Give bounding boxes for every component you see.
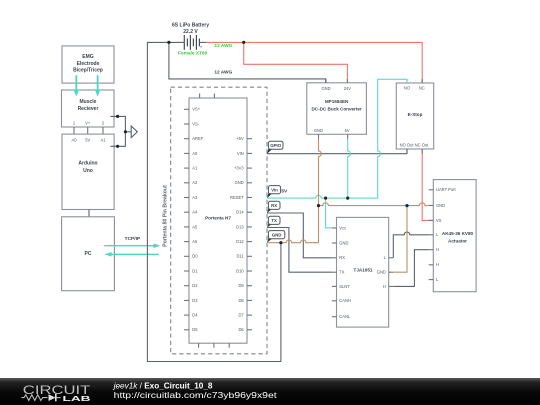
node 5V net at Vcc branch	[324, 197, 327, 200]
block AK45-36 KV80 Actuator	[429, 180, 476, 292]
svg-text:RX: RX	[271, 203, 277, 208]
wire battery negative branch 12AWG to buck GND	[169, 42, 326, 83]
svg-text:Electrode: Electrode	[77, 61, 100, 67]
block E-Stop	[396, 79, 433, 154]
svg-text:D9: D9	[238, 283, 244, 288]
svg-text:UART Port: UART Port	[436, 187, 457, 192]
svg-text:Vcc: Vcc	[339, 225, 346, 230]
wire RX flag to TJA RX	[267, 213, 332, 258]
svg-text:PC: PC	[85, 251, 92, 257]
signal arrow Portenta to PC (TCP/IP left)	[105, 252, 159, 257]
svg-text:24V: 24V	[344, 86, 352, 91]
net flag RX	[267, 201, 280, 213]
logo CIRCUIT LAB	[22, 383, 92, 403]
svg-text:DC-DC Buck Converter: DC-DC Buck Converter	[311, 107, 361, 112]
svg-text:GND: GND	[272, 232, 282, 237]
svg-text:MP1584EN: MP1584EN	[325, 99, 349, 104]
wire battery negative to ground rail	[147, 42, 281, 361]
wire GND net branch down to TJA GND	[393, 206, 407, 273]
svg-text:E-Stop: E-Stop	[408, 112, 423, 117]
wire TJA H to actuator H	[393, 250, 428, 287]
svg-text:A6: A6	[192, 239, 198, 244]
wire GND net horizontal to actuator GND with hops over cyan and red	[319, 203, 429, 206]
svg-text:TCP/IP: TCP/IP	[125, 236, 141, 242]
wire TJA L to actuator L with hop over brown	[393, 232, 428, 258]
block Arduino Uno	[62, 134, 114, 209]
node battery negative junction	[167, 41, 170, 44]
svg-text:LAB: LAB	[63, 394, 91, 403]
wire GND flag to brown vertical with hops over TX and RX wires	[267, 206, 319, 243]
svg-text:Vin: Vin	[271, 187, 278, 192]
signal arrow EMG to Muscle (left)	[73, 75, 79, 96]
node 5V net at buck 5V	[346, 197, 349, 200]
block Muscle Reciever	[62, 90, 115, 127]
svg-text:VIN: VIN	[237, 151, 244, 156]
svg-text:GND: GND	[339, 240, 348, 245]
svg-text:Portenta H7: Portenta H7	[205, 215, 231, 220]
signal arrow EMG to Muscle (right)	[95, 75, 101, 96]
svg-text:12 AWG: 12 AWG	[214, 43, 232, 49]
svg-text:D1: D1	[192, 268, 198, 273]
svg-text:6S LiPo Battery: 6S LiPo Battery	[172, 22, 209, 28]
svg-text:CANL: CANL	[339, 314, 351, 319]
node GND net junction	[317, 204, 320, 207]
svg-text:H: H	[436, 247, 439, 252]
wire battery positive to E-Stop NC (red)	[207, 42, 423, 83]
net flag Vin	[267, 186, 281, 199]
svg-text:5V: 5V	[85, 137, 90, 142]
svg-text:D14: D14	[236, 210, 244, 215]
svg-text:D12: D12	[236, 239, 244, 244]
svg-text:TJA1051: TJA1051	[354, 268, 373, 273]
svg-text:GND: GND	[235, 180, 244, 185]
node muscle pin right	[116, 115, 119, 118]
svg-text:V+: V+	[85, 121, 91, 126]
svg-text:GND: GND	[314, 128, 323, 133]
svg-text:+: +	[200, 46, 203, 51]
svg-text:Arduino: Arduino	[78, 161, 97, 167]
svg-text:A1: A1	[192, 166, 198, 171]
svg-text:D3: D3	[192, 298, 198, 303]
svg-text:GPIO: GPIO	[270, 143, 282, 148]
wire 5V net: branch down to TJA Vcc	[326, 198, 332, 228]
svg-text:D6: D6	[238, 327, 244, 332]
svg-text:VS-: VS-	[192, 121, 199, 126]
svg-text:D10: D10	[236, 268, 244, 273]
svg-text:Female XT60: Female XT60	[178, 51, 208, 57]
wire 24V branch to buck converter (red)	[244, 42, 348, 83]
svg-text:jeev1k / Exo_Circuit_10_8: jeev1k / Exo_Circuit_10_8	[113, 381, 213, 390]
svg-text:A4: A4	[192, 210, 198, 215]
net flag GND	[267, 231, 285, 243]
svg-text:A3: A3	[192, 195, 198, 200]
node battery positive junction	[242, 41, 245, 44]
svg-text:NC: NC	[419, 85, 425, 90]
signal arrow PC to Portenta (TCP/IP right)	[104, 243, 160, 248]
svg-text:D8: D8	[238, 298, 244, 303]
svg-text:SLNT: SLNT	[339, 284, 350, 289]
node buffer input	[124, 130, 127, 133]
svg-text:GND: GND	[377, 270, 386, 275]
svg-text:D4: D4	[192, 313, 198, 318]
chip Portenta H7	[189, 98, 247, 343]
svg-text:Bicep/Tricep: Bicep/Tricep	[73, 68, 103, 74]
net flag GPIO	[267, 141, 283, 154]
svg-text:+3V3: +3V3	[234, 166, 244, 171]
svg-text:A2: A2	[192, 180, 198, 185]
wire TX flag to TJA TX	[267, 228, 332, 273]
block EMG Electrode Bicep/Tricep	[62, 46, 114, 83]
buffer amplifier symbol	[131, 126, 137, 138]
svg-text:NC Out: NC Out	[415, 143, 430, 148]
svg-text:5V: 5V	[345, 128, 350, 133]
block PC	[62, 217, 115, 291]
svg-text:D13: D13	[236, 224, 244, 229]
svg-text:RESET: RESET	[230, 195, 244, 200]
svg-text:GND: GND	[321, 86, 330, 91]
module box Portenta 80 Pin Breakout (dashed)	[163, 87, 267, 354]
svg-text:D0: D0	[192, 254, 198, 259]
battery V1 6S LiPo	[172, 22, 209, 56]
svg-text:A0: A0	[192, 151, 198, 156]
svg-text:NO Out: NO Out	[400, 143, 415, 148]
svg-text:Uno: Uno	[83, 168, 93, 174]
svg-text:Actuator: Actuator	[448, 239, 467, 244]
svg-text:D7: D7	[238, 313, 244, 318]
svg-text:D2: D2	[192, 283, 198, 288]
wire GND net: buck GND down with hop over GPIO wire	[319, 139, 322, 206]
node arduino pin right	[116, 145, 119, 148]
svg-text:22.2 V: 22.2 V	[183, 29, 198, 35]
node GND net at TJA branch	[405, 204, 408, 207]
svg-text:VS: VS	[436, 218, 442, 223]
svg-text:D5: D5	[192, 327, 198, 332]
svg-text:5V: 5V	[281, 189, 288, 195]
chip Portenta H7 pins	[184, 94, 252, 348]
svg-text:Portenta 80 Pin Breakout: Portenta 80 Pin Breakout	[163, 185, 169, 247]
block MP1584EN DC-DC Buck Converter	[307, 79, 367, 139]
wire E-Stop NC Out to actuator VS (red)	[422, 149, 433, 220]
svg-text:A0: A0	[71, 137, 77, 142]
svg-text:CANH: CANH	[339, 298, 351, 303]
svg-text:Muscle: Muscle	[80, 99, 97, 105]
wire GPIO to E-Stop NO Out	[267, 149, 407, 154]
svg-text:EMG: EMG	[82, 54, 94, 60]
svg-text:TX: TX	[339, 270, 345, 275]
svg-text:Reciever: Reciever	[78, 106, 99, 112]
svg-text:+5V: +5V	[236, 136, 244, 141]
svg-text:VS+: VS+	[192, 107, 200, 112]
svg-text:GND: GND	[436, 203, 445, 208]
svg-text:TX: TX	[271, 218, 277, 223]
net flag TX	[267, 216, 280, 227]
node GND flag to ground rail	[279, 241, 282, 244]
svg-text:A5: A5	[192, 224, 198, 229]
svg-text:H: H	[383, 284, 386, 289]
svg-text:12 AWG: 12 AWG	[214, 70, 232, 76]
wire Muscle pin1/pin2 to buffer	[110, 116, 131, 146]
svg-text:NO: NO	[404, 85, 410, 90]
svg-text:AREF: AREF	[192, 136, 203, 141]
block TJA1051 CAN transceiver	[332, 217, 393, 327]
pin stubs Muscle to Arduino	[74, 127, 103, 134]
wire 5V net: Vin flag to E-Stop NO with hops	[267, 79, 407, 198]
svg-text:A1: A1	[100, 137, 106, 142]
wire battery positive stub	[199, 41, 206, 43]
svg-text:D11: D11	[236, 254, 244, 259]
wire 5V net: buck 5V down with hop over GPIO wire	[348, 139, 351, 198]
svg-text:http://circuitlab.com/c73yb96y: http://circuitlab.com/c73yb96y9x9et	[114, 390, 278, 400]
svg-text:AK45-36 KV80: AK45-36 KV80	[442, 231, 474, 236]
wire Arduino to PC	[88, 210, 90, 217]
svg-text:H: H	[436, 262, 439, 267]
svg-text:RX: RX	[339, 255, 345, 260]
